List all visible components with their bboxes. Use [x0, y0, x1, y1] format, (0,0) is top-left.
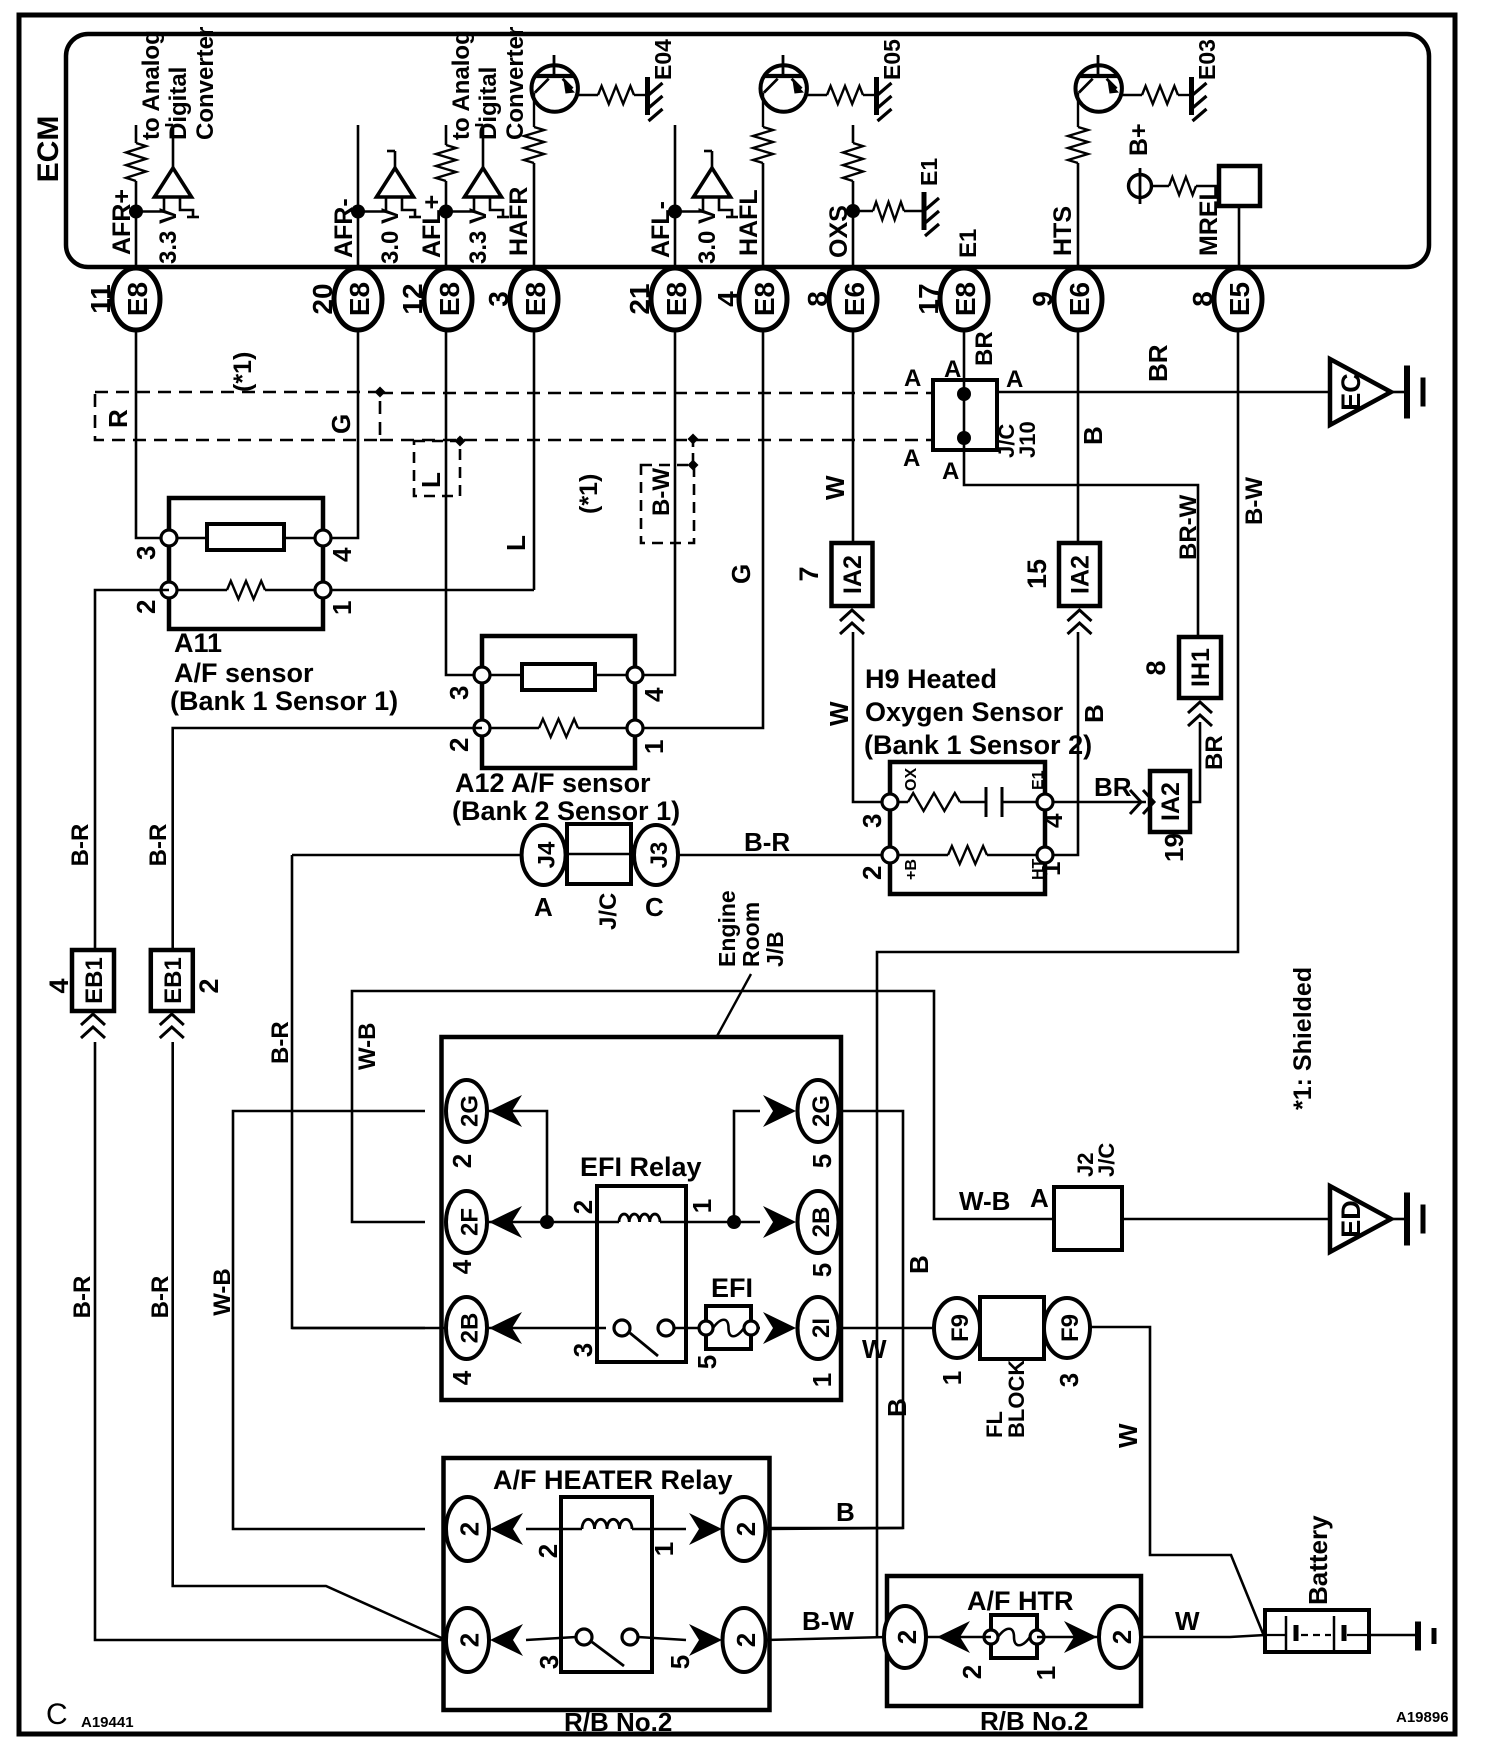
svg-text:2: 2	[731, 1633, 761, 1647]
svg-text:1: 1	[327, 601, 357, 615]
svg-text:2: 2	[1107, 1630, 1137, 1644]
svg-text:E8: E8	[520, 282, 551, 316]
svg-text:J3: J3	[646, 842, 673, 869]
svg-text:AFL-: AFL-	[647, 201, 675, 258]
svg-text:E1: E1	[955, 229, 982, 258]
svg-text:E5: E5	[1224, 282, 1255, 316]
svg-text:E8: E8	[122, 282, 153, 316]
svg-text:2G: 2G	[457, 1095, 484, 1127]
svg-text:EFI Relay: EFI Relay	[580, 1152, 702, 1182]
svg-text:AFR+: AFR+	[108, 189, 136, 255]
svg-text:2: 2	[455, 1633, 485, 1647]
svg-text:to Analog: to Analog	[138, 30, 165, 140]
svg-text:(Bank 1 Sensor 1): (Bank 1 Sensor 1)	[170, 686, 398, 716]
svg-text:Digital: Digital	[475, 67, 502, 140]
svg-text:Digital: Digital	[165, 67, 192, 140]
svg-text:2: 2	[957, 1665, 987, 1679]
svg-text:HTS: HTS	[1049, 206, 1077, 256]
svg-text:A/F HTR: A/F HTR	[967, 1586, 1073, 1616]
svg-text:3: 3	[131, 546, 161, 560]
svg-text:E1: E1	[916, 158, 942, 186]
svg-text:BR-W: BR-W	[1175, 494, 1202, 560]
svg-text:E04: E04	[650, 39, 676, 80]
svg-text:OX: OX	[903, 768, 920, 791]
svg-text:G: G	[726, 564, 756, 584]
svg-text:1: 1	[639, 740, 669, 754]
svg-text:20: 20	[307, 283, 338, 314]
svg-text:2F: 2F	[457, 1208, 484, 1236]
svg-text:B: B	[836, 1497, 855, 1527]
svg-text:B-R: B-R	[267, 1021, 294, 1064]
svg-text:MREL: MREL	[1195, 185, 1223, 256]
svg-text:2: 2	[131, 600, 161, 614]
svg-text:(*1): (*1)	[575, 474, 603, 514]
svg-text:1: 1	[649, 1542, 679, 1556]
svg-text:ECM: ECM	[32, 116, 65, 183]
svg-text:EB1: EB1	[160, 957, 187, 1004]
svg-text:8: 8	[1187, 291, 1218, 307]
svg-text:E05: E05	[879, 39, 905, 80]
svg-text:2: 2	[533, 1544, 563, 1558]
svg-text:E8: E8	[661, 282, 692, 316]
svg-text:E8: E8	[434, 282, 465, 316]
svg-text:A/F sensor: A/F sensor	[174, 658, 314, 688]
svg-text:Converter: Converter	[192, 27, 219, 140]
svg-text:OXS: OXS	[825, 205, 853, 258]
svg-text:B-R: B-R	[69, 1276, 96, 1319]
svg-text:5: 5	[807, 1154, 837, 1168]
svg-text:+B: +B	[903, 859, 920, 880]
svg-text:2: 2	[194, 978, 224, 993]
svg-text:2: 2	[447, 1154, 477, 1168]
svg-text:21: 21	[624, 283, 655, 314]
svg-text:3.0 V: 3.0 V	[694, 208, 721, 264]
svg-text:5: 5	[665, 1655, 695, 1669]
svg-text:E8: E8	[749, 282, 780, 316]
svg-text:A: A	[942, 458, 959, 485]
svg-text:IA2: IA2	[1067, 555, 1095, 594]
svg-text:BR: BR	[971, 331, 998, 366]
svg-text:EFI: EFI	[711, 1273, 753, 1303]
svg-text:BR: BR	[1201, 735, 1228, 770]
svg-text:3.3 V: 3.3 V	[155, 208, 182, 264]
svg-text:BR: BR	[1094, 772, 1132, 802]
svg-text:B-R: B-R	[145, 824, 172, 867]
svg-text:E8: E8	[950, 282, 981, 316]
svg-text:W: W	[1175, 1606, 1200, 1636]
svg-text:B-R: B-R	[147, 1276, 174, 1319]
svg-text:HAFR: HAFR	[505, 187, 533, 256]
svg-text:A19441: A19441	[81, 1714, 134, 1731]
svg-text:5: 5	[692, 1355, 722, 1369]
svg-text:A: A	[534, 892, 553, 922]
svg-text:E8: E8	[344, 282, 375, 316]
svg-text:J/CJ10: J/CJ10	[994, 421, 1040, 458]
svg-text:A: A	[904, 365, 921, 392]
svg-text:2: 2	[455, 1522, 485, 1536]
svg-text:3: 3	[1054, 1373, 1084, 1387]
svg-text:C: C	[46, 1698, 68, 1731]
svg-text:3: 3	[857, 814, 887, 828]
svg-text:BR: BR	[1143, 344, 1173, 382]
svg-text:1: 1	[1031, 1666, 1061, 1680]
svg-text:2B: 2B	[808, 1207, 835, 1238]
svg-text:W-B: W-B	[354, 1023, 381, 1071]
svg-text:E03: E03	[1194, 39, 1220, 80]
svg-text:3.0 V: 3.0 V	[377, 208, 404, 264]
svg-text:1: 1	[937, 1371, 967, 1385]
svg-text:(Bank 1 Sensor 2): (Bank 1 Sensor 2)	[864, 730, 1092, 760]
svg-text:B: B	[1079, 704, 1109, 723]
svg-text:B-W: B-W	[648, 468, 675, 516]
svg-text:*1: Shielded: *1: Shielded	[1289, 967, 1317, 1110]
svg-text:R/B No.2: R/B No.2	[980, 1706, 1088, 1736]
svg-text:AFR-: AFR-	[330, 198, 358, 258]
svg-text:3: 3	[568, 1343, 598, 1357]
svg-text:Converter: Converter	[502, 27, 529, 140]
svg-text:2: 2	[857, 866, 887, 880]
svg-text:A12 A/F sensor: A12 A/F sensor	[455, 768, 651, 798]
svg-text:1: 1	[1036, 862, 1066, 876]
svg-text:19: 19	[1159, 833, 1189, 862]
svg-text:B-R: B-R	[67, 824, 94, 867]
svg-text:B: B	[904, 1255, 934, 1274]
svg-text:3: 3	[534, 1655, 564, 1669]
svg-text:A: A	[1030, 1183, 1049, 1213]
svg-text:EB1: EB1	[81, 957, 108, 1004]
svg-text:B-W: B-W	[1241, 477, 1268, 525]
svg-text:A: A	[944, 356, 961, 383]
svg-text:R: R	[103, 409, 133, 428]
svg-text:R/B No.2: R/B No.2	[564, 1707, 672, 1737]
svg-text:F9: F9	[947, 1314, 974, 1342]
svg-text:B-W: B-W	[802, 1606, 854, 1636]
svg-text:2: 2	[892, 1630, 922, 1644]
svg-text:4: 4	[712, 291, 743, 307]
svg-text:L: L	[416, 472, 446, 488]
svg-text:J/C: J/C	[595, 893, 622, 930]
svg-text:2: 2	[568, 1200, 598, 1214]
svg-text:B: B	[882, 1398, 912, 1417]
svg-text:ED: ED	[1336, 1200, 1366, 1238]
svg-text:E1: E1	[1030, 770, 1047, 790]
svg-text:A/F HEATER Relay: A/F HEATER Relay	[493, 1465, 733, 1495]
svg-text:W-B: W-B	[959, 1186, 1010, 1216]
svg-text:2I: 2I	[808, 1318, 835, 1338]
svg-text:15: 15	[1022, 559, 1052, 589]
svg-text:(*1): (*1)	[229, 352, 257, 392]
svg-text:4: 4	[447, 1370, 477, 1385]
svg-text:IA2: IA2	[839, 555, 867, 594]
svg-text:HAFL: HAFL	[735, 189, 763, 256]
svg-text:W: W	[1113, 1423, 1143, 1448]
svg-text:C: C	[645, 892, 664, 922]
svg-text:B-R: B-R	[744, 827, 790, 857]
svg-text:17: 17	[913, 283, 944, 314]
svg-text:IA2: IA2	[1157, 782, 1185, 821]
svg-text:2: 2	[731, 1522, 761, 1536]
svg-text:A11: A11	[174, 628, 222, 658]
svg-text:H9 Heated: H9 Heated	[865, 664, 997, 694]
svg-text:2G: 2G	[808, 1095, 835, 1127]
svg-text:B: B	[1078, 426, 1108, 445]
svg-text:A: A	[903, 445, 920, 472]
svg-text:2B: 2B	[457, 1313, 484, 1344]
svg-text:7: 7	[794, 566, 824, 581]
svg-text:8: 8	[1141, 660, 1171, 675]
svg-text:1: 1	[687, 1199, 717, 1213]
svg-text:E6: E6	[839, 282, 870, 316]
svg-text:E6: E6	[1064, 282, 1095, 316]
svg-text:9: 9	[1027, 291, 1058, 307]
svg-text:IH1: IH1	[1187, 648, 1215, 687]
svg-text:3: 3	[483, 291, 514, 307]
svg-text:5: 5	[807, 1263, 837, 1277]
svg-text:4: 4	[1038, 813, 1068, 828]
svg-text:W: W	[824, 701, 854, 726]
svg-text:11: 11	[85, 284, 116, 314]
svg-text:1: 1	[807, 1373, 837, 1387]
svg-text:G: G	[326, 414, 356, 434]
svg-text:Oxygen Sensor: Oxygen Sensor	[865, 697, 1064, 727]
svg-text:3.3 V: 3.3 V	[465, 208, 492, 264]
svg-text:12: 12	[397, 283, 428, 314]
svg-text:B+: B+	[1125, 123, 1153, 156]
svg-text:4: 4	[639, 687, 669, 702]
svg-text:W: W	[820, 475, 850, 500]
svg-text:4: 4	[44, 978, 74, 993]
svg-text:F9: F9	[1057, 1314, 1084, 1342]
svg-text:Battery: Battery	[1303, 1515, 1333, 1605]
svg-text:A19896: A19896	[1396, 1709, 1449, 1726]
svg-text:8: 8	[802, 291, 833, 307]
svg-text:W: W	[862, 1334, 887, 1364]
svg-text:4: 4	[327, 547, 357, 562]
svg-text:2: 2	[444, 738, 474, 752]
svg-text:EC: EC	[1336, 373, 1366, 411]
svg-text:4: 4	[447, 1259, 477, 1274]
svg-text:AFL+: AFL+	[418, 195, 446, 258]
svg-text:to Analog: to Analog	[448, 30, 475, 140]
svg-text:(Bank 2 Sensor 1): (Bank 2 Sensor 1)	[452, 796, 680, 826]
svg-text:L: L	[501, 535, 531, 551]
svg-text:J4: J4	[534, 841, 561, 868]
svg-text:3: 3	[444, 686, 474, 700]
svg-text:A: A	[1006, 366, 1023, 393]
